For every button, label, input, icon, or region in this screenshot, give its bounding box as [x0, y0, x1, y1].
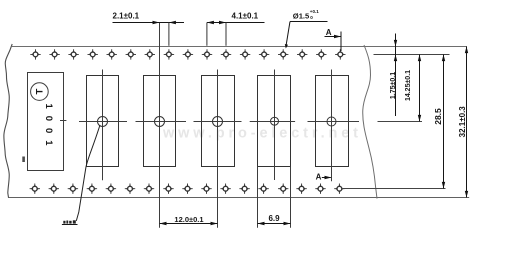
- svg-text:14.25±0.1: 14.25±0.1: [405, 70, 412, 101]
- svg-text:2.1±0.1: 2.1±0.1: [113, 11, 140, 20]
- svg-text:Ø1.5: Ø1.5: [293, 12, 310, 21]
- svg-text:32.1±0.3: 32.1±0.3: [458, 106, 467, 138]
- svg-text:6.9: 6.9: [268, 214, 280, 223]
- svg-text:12.0±0.1: 12.0±0.1: [174, 215, 203, 224]
- svg-text:T: T: [35, 89, 46, 95]
- svg-text:1.75±0.1: 1.75±0.1: [390, 72, 397, 99]
- svg-text:www.pro-electr.net: www.pro-electr.net: [162, 126, 358, 142]
- svg-text:+0.1: +0.1: [310, 9, 320, 14]
- svg-text:28.5: 28.5: [433, 108, 443, 125]
- svg-text:4.1±0.1: 4.1±0.1: [232, 11, 259, 20]
- svg-text:0: 0: [310, 15, 313, 20]
- svg-text:A: A: [326, 28, 332, 37]
- svg-text:1001: 1001: [43, 104, 54, 147]
- svg-text:A: A: [316, 172, 322, 181]
